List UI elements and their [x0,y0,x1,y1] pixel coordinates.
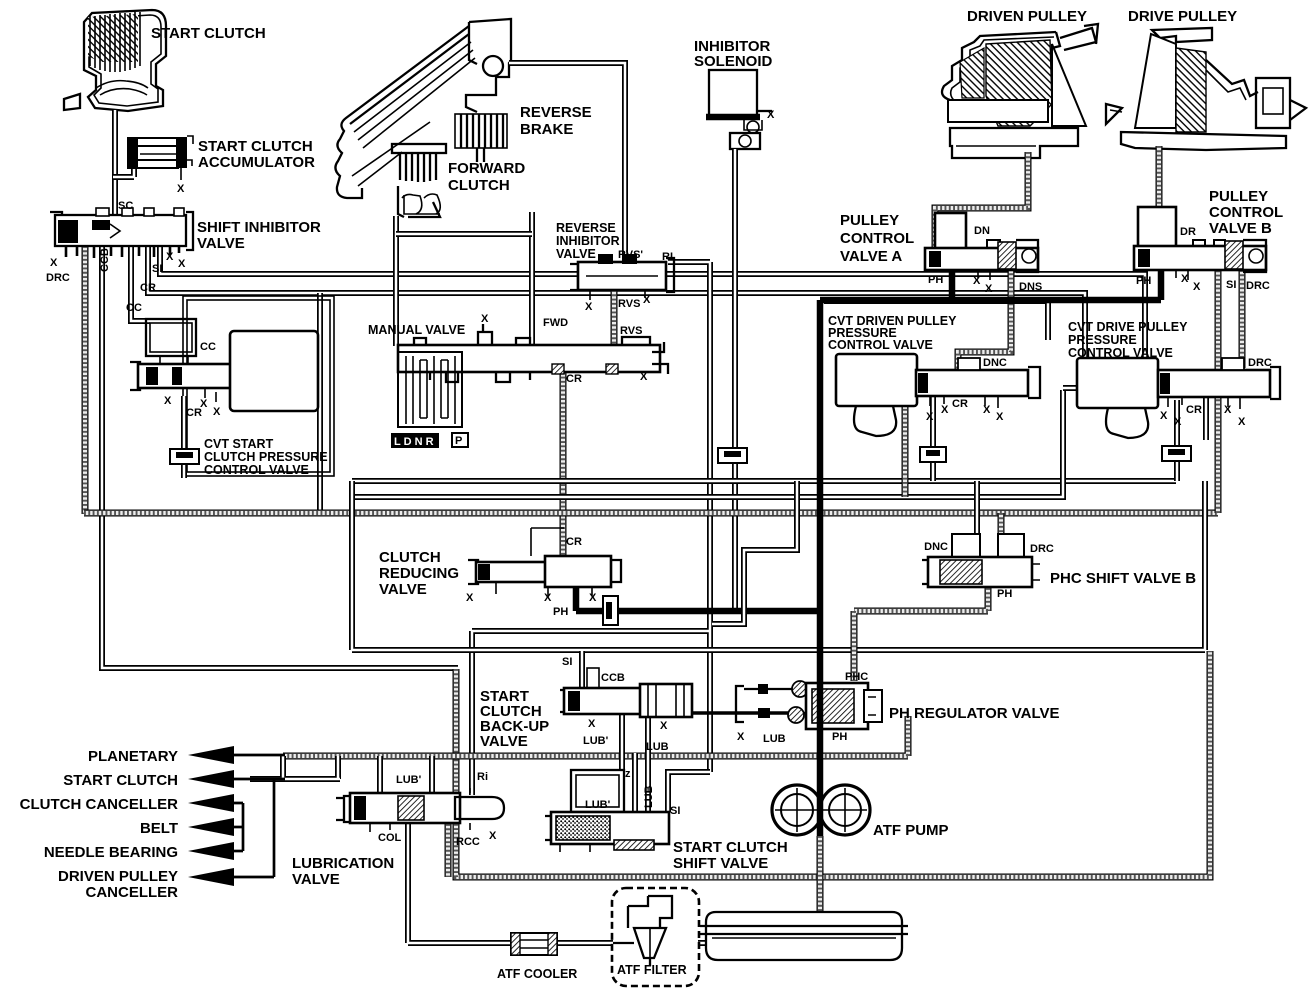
svg-text:CONTROL VALVE: CONTROL VALVE [828,338,933,352]
svg-text:CR: CR [566,536,582,548]
svg-text:LUBRICATION: LUBRICATION [292,855,394,872]
wire: RI line from reverse inhibitor valve down to lubrication valve [472,262,710,795]
svg-text:PHC SHIFT VALVE B: PHC SHIFT VALVE B [1050,570,1196,587]
ATF cooler [511,933,557,955]
svg-text:PULLEY: PULLEY [1209,188,1268,205]
ATF pump [772,785,870,835]
svg-text:CCB: CCB [99,248,111,272]
PH regulator valve [736,681,882,729]
svg-text:X: X [996,411,1004,423]
svg-text:CLUTCH: CLUTCH [448,177,510,194]
svg-text:z: z [625,768,631,780]
wire: back-up valve SI stub and CCB loop [579,651,585,692]
arrow CLUTCH CANCELLER [230,803,243,851]
wire: PHC hatched pipe from PHC shift valve to PH regulator [854,588,988,681]
wire: CC line to CVT start clutch pressure control valve [131,246,150,321]
svg-text:SI: SI [1226,279,1236,291]
svg-text:INHIBITOR: INHIBITOR [556,234,620,248]
CVT drive pulley pressure control valve [1077,358,1280,438]
svg-text:X: X [489,830,497,842]
svg-text:VALVE: VALVE [197,235,245,252]
svg-text:START CLUTCH: START CLUTCH [673,839,788,856]
svg-text:LUB: LUB [763,733,786,745]
svg-text:ACCUMULATOR: ACCUMULATOR [198,154,315,171]
svg-text:ATF FILTER: ATF FILTER [617,963,687,977]
svg-text:CLUTCH CANCELLER: CLUTCH CANCELLER [20,796,178,813]
svg-text:DNC: DNC [983,357,1007,369]
svg-text:CR: CR [186,407,202,419]
svg-text:X: X [481,313,489,325]
svg-text:COL: COL [378,832,402,844]
wire: LUB' loop box above start clutch shift valve [571,770,624,812]
manual valve [391,324,668,448]
svg-text:PHC: PHC [845,671,868,683]
svg-text:CLUTCH PRESSURE: CLUTCH PRESSURE [204,450,328,464]
svg-text:L D N R: L D N R [394,436,434,448]
svg-text:ATF COOLER: ATF COOLER [497,967,577,981]
arrow DRIVEN PULLEY CANCELLER [230,779,274,877]
svg-text:CONTROL VALVE: CONTROL VALVE [204,463,309,477]
svg-text:CONTROL: CONTROL [1209,204,1283,221]
wire: SC line from start clutch to shift inhibitor valve [112,110,118,217]
arrow START CLUTCH [230,778,285,781]
svg-text:X: X [767,109,775,121]
oil pan [700,912,908,960]
wire: bus B1 [352,478,1176,484]
orifice under CVT driven pulley PCV [718,448,747,463]
svg-text:RI: RI [662,251,673,263]
svg-text:X: X [660,720,668,732]
svg-text:CONTROL: CONTROL [840,230,914,247]
svg-text:PH: PH [928,274,943,286]
wire: drive PCV drain with orifice [1174,400,1180,481]
reverse brake / forward clutch mechanical drawing [335,19,511,217]
wire: reverse brake line [509,63,625,262]
start clutch shift valve [545,812,669,852]
svg-text:X: X [177,183,185,195]
svg-text:START CLUTCH: START CLUTCH [198,138,313,155]
svg-text:X: X [213,406,221,418]
orifice under CVT drive pulley PCV [1162,446,1191,461]
svg-text:SHIFT VALVE: SHIFT VALVE [673,855,768,872]
svg-text:VALVE A: VALVE A [840,248,902,265]
svg-text:X: X [544,592,552,604]
lubrication valve [336,788,504,832]
wire: PH main trunk (thick) [820,267,1161,684]
wire: SI hatched riser to pulley control valve B [1215,270,1222,513]
svg-text:SI: SI [670,805,680,817]
wire: cooler to filter to pan [556,940,707,946]
wire: link between clutch drops [396,231,532,237]
svg-text:PH: PH [997,588,1012,600]
svg-text:X: X [737,731,745,743]
svg-text:VALVE: VALVE [379,581,427,598]
wire: DNS hatched pipe from PCV A to driven PCV [958,269,1011,370]
wire: DRC hatched drop on right [1239,270,1246,368]
output arrows [188,746,285,886]
svg-text:MANUAL VALVE: MANUAL VALVE [368,323,465,337]
svg-text:CANCELLER: CANCELLER [86,884,179,901]
svg-text:SOLENOID: SOLENOID [694,53,773,70]
svg-text:RCC: RCC [456,836,480,848]
svg-text:DRC: DRC [1246,280,1270,292]
wire: CR long bus [148,246,1085,392]
CVT start clutch pressure control valve [130,319,318,411]
svg-text:DRC: DRC [1248,357,1272,369]
svg-text:CCB: CCB [601,672,625,684]
wire: clutch reducing valve box [352,481,1205,650]
svg-text:X: X [1181,273,1189,285]
svg-text:PULLEY: PULLEY [840,212,899,229]
wire: forward clutch drop to manual valve [393,216,399,346]
svg-text:X: X [643,294,651,306]
svg-text:X: X [983,404,991,416]
wire: RCC drop [445,824,452,877]
svg-text:CVT DRIVE PULLEY: CVT DRIVE PULLEY [1068,320,1188,334]
CVT driven pulley pressure control valve [836,354,1040,436]
svg-text:PH: PH [832,731,847,743]
svg-text:VALVE: VALVE [292,871,340,888]
wire: back-up valve LUB ports down [622,714,648,812]
wire: inhibitor solenoid drop [732,149,738,611]
svg-text:VALVE: VALVE [480,733,528,750]
wire: PH trunk through regulator and pump to pan [817,684,824,836]
pulley control valve B [1134,207,1266,280]
start clutch back-up valve [560,684,692,717]
svg-text:DRIVE PULLEY: DRIVE PULLEY [1128,8,1237,25]
svg-text:CR: CR [140,282,156,294]
wire: SI long bus [160,246,1145,392]
svg-text:X: X [1238,416,1246,428]
svg-text:X: X [1193,281,1201,293]
arrow PLANETARY [230,754,285,757]
svg-text:X: X [973,275,981,287]
svg-text:DNS: DNS [1019,281,1042,293]
arrow NEEDLE BEARING [230,850,243,853]
wire: DNC riser to PHC shift valve [974,481,980,536]
svg-text:DRIVEN PULLEY: DRIVEN PULLEY [58,868,178,885]
wire: COL line down to cooler [408,824,512,943]
svg-text:LUB': LUB' [396,774,422,786]
svg-text:X: X [585,301,593,313]
inhibitor solenoid [706,70,772,149]
arrow BELT [230,826,243,829]
svg-text:SI: SI [152,263,162,275]
clutch reducing valve [468,528,621,596]
wire: CCB branch from bus B1 down to back-up valve area [712,481,797,624]
shift inhibitor valve [50,208,193,258]
start clutch accumulator [127,136,193,180]
wire: drive pulley hatched drop to pulley control valve B [1156,146,1163,207]
svg-text:DR: DR [1180,226,1196,238]
svg-text:ATF PUMP: ATF PUMP [873,822,949,839]
wire: PH thick from clutch reducing valve [576,584,821,611]
wire: driven pulley hatched drop to pulley control valve A [935,152,1028,269]
svg-text:P: P [455,435,462,447]
svg-text:CC: CC [126,302,142,314]
svg-text:DRC: DRC [1030,543,1054,555]
wire: RVS hatched line to manual valve [611,290,618,346]
svg-text:LUB': LUB' [583,735,609,747]
start clutch mechanical drawing [64,10,166,111]
wire: DRC riser to PHC shift valve [998,513,1005,536]
pulley control valve A [925,213,1038,280]
orifice under CVT driven pulley PCV [920,447,946,462]
svg-text:LUB: LUB [646,741,669,753]
svg-text:LUB: LUB [643,785,655,808]
wire: driven PCV drains with orifice [902,396,909,497]
svg-text:Ri: Ri [477,771,488,783]
svg-text:REVERSE: REVERSE [520,104,592,121]
svg-text:X: X [985,283,993,295]
wire: CVT drive pulley PCV box top edge [1063,388,1218,440]
svg-text:FWD: FWD [543,317,568,329]
svg-text:X: X [640,371,648,383]
svg-text:DRC: DRC [46,272,70,284]
svg-text:VALVE: VALVE [556,247,596,261]
svg-text:CC: CC [200,341,216,353]
wire: DRC channel (hatched) left outer box edge [82,246,89,514]
wire: lubrication valve top ports [380,756,432,793]
svg-text:X: X [166,251,174,263]
wire: start clutch feed line and links [250,756,340,779]
svg-text:CR: CR [1186,404,1202,416]
svg-text:DNC: DNC [924,541,948,553]
wire: reverse brake housing drop [529,212,535,346]
wire: start PCV CR drain with orifice [181,396,187,478]
wire: CVT start clutch PCV inner box [183,296,334,476]
svg-text:SI: SI [562,656,572,668]
wire: LUB line from back-up valve to PH regulator [691,708,795,718]
svg-text:X: X [926,411,934,423]
wire: left vertical from CR bus [317,293,323,513]
wire: bus B2 with riser to drive PCV box [352,390,1063,497]
svg-text:START CLUTCH: START CLUTCH [63,772,178,789]
reverse inhibitor valve [570,254,674,300]
svg-text:SHIFT INHIBITOR: SHIFT INHIBITOR [197,219,321,236]
wire: SI elbow into start clutch shift valve [668,772,710,812]
svg-text:CONTROL VALVE: CONTROL VALVE [1068,346,1173,360]
svg-text:DN: DN [974,225,990,237]
orifice under CVT start clutch PCV [170,449,199,464]
svg-text:CR: CR [566,373,582,385]
svg-text:RVS: RVS [618,298,640,310]
svg-text:BELT: BELT [140,820,178,837]
svg-text:DRIVEN PULLEY: DRIVEN PULLEY [967,8,1087,25]
svg-text:X: X [589,592,597,604]
svg-text:PRESSURE: PRESSURE [1068,333,1137,347]
ATF filter [612,888,699,986]
svg-text:CLUTCH: CLUTCH [379,549,441,566]
wire: main hatched bus B3 [84,510,1218,517]
wire: planetary hatched bus [283,716,908,756]
svg-text:X: X [466,592,474,604]
svg-text:X: X [1160,410,1168,422]
svg-text:NEEDLE BEARING: NEEDLE BEARING [44,844,178,861]
wire: CVT driven pulley PCV box top edge [824,301,1048,340]
svg-text:PH: PH [553,606,568,618]
svg-text:REDUCING: REDUCING [379,565,459,582]
svg-text:VALVE B: VALVE B [1209,220,1272,237]
svg-text:BRAKE: BRAKE [520,121,573,138]
svg-text:X: X [1174,416,1182,428]
svg-text:PH REGULATOR VALVE: PH REGULATOR VALVE [889,705,1060,722]
svg-text:START CLUTCH: START CLUTCH [151,25,266,42]
wire: bottom box border (hatched) [456,651,1210,877]
svg-text:SC: SC [118,200,133,212]
svg-text:X: X [164,395,172,407]
svg-text:X: X [588,718,596,730]
svg-text:RVS: RVS [620,325,642,337]
wire: accumulator stub [113,168,134,177]
svg-text:PLANETARY: PLANETARY [88,748,178,765]
svg-text:RVS': RVS' [618,249,643,261]
svg-text:PH: PH [1136,275,1151,287]
PHC shift valve B [922,534,1040,587]
svg-text:REVERSE: REVERSE [556,221,616,235]
svg-text:CVT START: CVT START [204,437,274,451]
svg-text:CR: CR [952,398,968,410]
svg-text:X: X [50,257,58,269]
svg-text:X: X [1224,404,1232,416]
svg-text:LUB': LUB' [585,799,611,811]
svg-text:FORWARD: FORWARD [448,160,525,177]
svg-text:X: X [178,258,186,270]
wire: CCB line down left side and along bottom [102,246,458,668]
wire: CR hatched drop from manual valve to clutch reducing valve [560,368,567,558]
drive pulley mechanical drawing [1106,28,1306,150]
driven pulley mechanical drawing [942,24,1098,158]
orifice on PH line [603,596,618,625]
svg-text:X: X [941,404,949,416]
